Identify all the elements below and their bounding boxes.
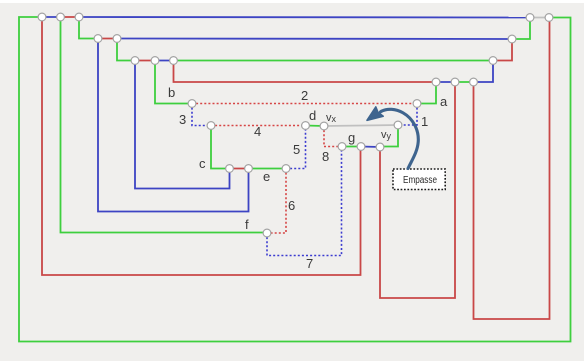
node D1 xyxy=(432,78,440,86)
node B2 xyxy=(113,35,121,43)
node C3 xyxy=(170,57,178,65)
wire blue A3-E1 top horizontal xyxy=(79,16,530,19)
wire green A3-B1 xyxy=(79,17,98,39)
Empasse box xyxy=(393,169,445,190)
svg-text:c: c xyxy=(199,156,206,171)
node A1 xyxy=(38,13,46,21)
wire dotted red 6 e-f xyxy=(267,169,286,234)
wire red B1-B2 xyxy=(98,38,117,40)
node n3 xyxy=(207,122,215,130)
labels xyxy=(168,85,448,271)
svg-text:8: 8 xyxy=(322,149,329,164)
node D3 xyxy=(470,78,478,86)
svg-text:e: e xyxy=(263,169,270,184)
wire blue R1-D3 xyxy=(474,61,494,83)
wire green C2-b xyxy=(155,61,192,104)
wire green B2-C1 xyxy=(117,39,135,61)
wire blue C1-c1 xyxy=(135,61,230,189)
wire green g1-g2 xyxy=(342,146,361,148)
svg-text:f: f xyxy=(245,217,249,232)
wire green n3-c1 xyxy=(211,126,230,169)
node B1 xyxy=(94,35,102,43)
node E2 xyxy=(545,14,553,22)
wire blue C2-C3 xyxy=(155,60,174,62)
wire green C3-R1 xyxy=(174,60,494,62)
node R2 xyxy=(508,35,516,43)
wire dotted blue 7 f-g1 xyxy=(267,147,342,256)
node C2 xyxy=(151,57,159,65)
wire dotted red 8 vx-g1 xyxy=(324,126,342,147)
wire red A2-A3 xyxy=(61,16,80,18)
svg-text:2: 2 xyxy=(301,88,308,103)
wire green D2-D3 xyxy=(455,81,474,83)
wire dotted red 2 b-a xyxy=(192,103,417,105)
wire dotted blue 1 a-vy xyxy=(398,104,417,126)
node D2 xyxy=(451,78,459,86)
svg-text:b: b xyxy=(168,85,175,100)
svg-text:5: 5 xyxy=(293,142,300,157)
wire gray vx-vy xyxy=(324,125,398,126)
wire blue A1-A2 xyxy=(42,16,61,18)
svg-text:vx: vx xyxy=(326,112,337,124)
node c2 xyxy=(245,165,253,173)
wire red A1-g2 xyxy=(42,17,361,275)
wire green D1-a xyxy=(417,82,436,104)
node vx xyxy=(320,122,328,130)
wire blue B2-R2 xyxy=(117,38,512,41)
node C1 xyxy=(131,57,139,65)
node c1 xyxy=(226,165,234,173)
svg-text:vy: vy xyxy=(381,129,392,141)
node vy xyxy=(394,121,402,129)
node b xyxy=(188,100,196,108)
svg-text:Empasse: Empasse xyxy=(403,175,437,186)
svg-text:6: 6 xyxy=(288,198,295,213)
node R1 xyxy=(489,57,497,65)
wire red C1-C2 xyxy=(135,60,155,62)
wire dotted red 4 n3-d xyxy=(211,125,306,127)
wire green vy-g3 xyxy=(380,125,398,147)
node f xyxy=(263,229,271,237)
node e xyxy=(282,165,290,173)
wire green A2-f xyxy=(61,17,268,233)
node g2 xyxy=(357,143,365,151)
node g3 xyxy=(376,143,384,151)
wire red D2-g3 xyxy=(380,82,455,298)
node E1 xyxy=(526,14,534,22)
wire green E1-R2 xyxy=(512,18,530,40)
svg-text:g: g xyxy=(348,130,355,145)
wire red C3-D1 xyxy=(174,61,437,83)
svg-text:1: 1 xyxy=(421,114,428,129)
node d xyxy=(302,122,310,130)
node a xyxy=(413,100,421,108)
wire green c2-e xyxy=(249,168,287,170)
wire gray E1-E2 xyxy=(530,17,549,19)
node g1 xyxy=(338,143,346,151)
wire red R2-R1 xyxy=(493,39,512,61)
svg-text:3: 3 xyxy=(179,112,186,127)
node A2 xyxy=(57,13,65,21)
svg-text:a: a xyxy=(440,94,448,109)
wire blue g2-g3 xyxy=(361,146,380,149)
wire red D3-E2 xyxy=(474,18,550,320)
wire dotted blue 5 e-d xyxy=(286,126,306,169)
wire dotted blue 3 b-n3 xyxy=(192,104,211,126)
wire green d-vx xyxy=(306,125,325,128)
svg-text:4: 4 xyxy=(254,124,261,139)
wire blue D1-D2 xyxy=(436,81,455,83)
wire red c1-c2 xyxy=(230,168,249,170)
wire blue B1-c2 xyxy=(98,39,249,212)
svg-text:7: 7 xyxy=(306,256,313,271)
node A3 xyxy=(75,13,83,21)
svg-text:d: d xyxy=(309,108,316,123)
arrow annotation xyxy=(367,107,418,169)
